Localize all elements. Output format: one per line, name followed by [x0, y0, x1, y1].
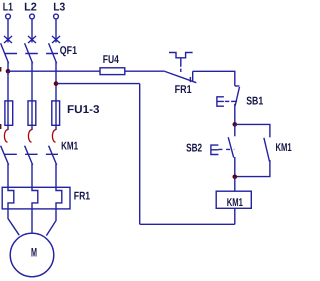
terminal L3: [54, 14, 59, 19]
contact KM1 aux blade: [264, 138, 270, 162]
breaker QF1 pole 3 blade: [49, 43, 57, 71]
node junction dot L1/control: [6, 69, 11, 74]
wire through fuse FU4: [100, 70, 165, 72]
wire FR1 to SB1 corner: [193, 71, 235, 86]
svg-text:KM1: KM1: [276, 142, 292, 154]
svg-text:QF1: QF1: [60, 45, 77, 57]
wire heater3 to motor: [46, 209, 56, 236]
coil KM1: [216, 191, 251, 208]
wire inside fuse FU2: [31, 101, 33, 125]
contactor KM1 pole 3 arc chute (red): [52, 130, 55, 142]
fuse FU2: [28, 101, 36, 125]
contactor KM1 pole 1 blade: [1, 146, 9, 188]
pushbutton SB1 actuator link (dashed): [225, 100, 229, 102]
terminal L1: [6, 14, 11, 19]
wire control phase C horizontal: [56, 83, 140, 85]
svg-text:FR1: FR1: [74, 191, 90, 203]
svg-text:L3: L3: [53, 1, 65, 13]
thermal relay FR1 heater 2: [32, 187, 38, 209]
wire pole 3 to fuse: [55, 71, 57, 125]
svg-text:FU4: FU4: [103, 54, 120, 66]
wire L2 drop: [31, 19, 33, 42]
contactor KM1 pole 2 arc chute (red): [28, 130, 31, 142]
breaker QF1 pole 2 blade: [25, 43, 33, 71]
wire fuse FU1 to contactor: [7, 125, 9, 130]
wire FR1 right terminal: [192, 71, 194, 81]
contactor KM1 linkage (dashed): [4, 153, 58, 155]
breaker QF1 pole 1 X contact: [4, 36, 12, 43]
wire SB1 bottom: [234, 104, 236, 125]
contact FR1 NC seat tick: [189, 77, 191, 82]
contactor KM1 pole 2 blade: [25, 146, 33, 188]
fuse FU1: [5, 101, 13, 125]
wire bottom return: [140, 223, 235, 225]
wire pole 2 to fuse: [31, 71, 33, 125]
svg-text:SB1: SB1: [246, 95, 263, 107]
wire KM1 aux bottom: [235, 160, 270, 177]
pushbutton SB1 actuator E: [217, 97, 224, 106]
thermal release stem dash: [180, 69, 182, 72]
svg-text:M: M: [31, 246, 37, 260]
svg-text:KM1: KM1: [227, 197, 243, 209]
wire heater2 to motor: [31, 209, 33, 233]
pushbutton SB1 blade: [235, 87, 239, 106]
contactor KM1 pole 3 blade: [49, 146, 57, 188]
wire control right riser: [139, 84, 141, 225]
breaker QF1 pole 1 blade: [1, 43, 9, 71]
wire L1 drop: [7, 19, 9, 42]
breaker QF1 linkage (dashed): [5, 53, 59, 55]
wire L3 drop: [55, 19, 57, 42]
thermal release stem: [180, 58, 182, 67]
thermal relay FR1 box: [2, 187, 70, 209]
pushbutton SB2 actuator E: [211, 145, 219, 154]
wire coil to bottom: [234, 208, 236, 224]
fuse FU4: [100, 68, 125, 75]
motor M circle: [10, 233, 54, 277]
wire SB2 bottom: [234, 157, 236, 177]
svg-text:L2: L2: [24, 1, 37, 13]
terminal L2: [30, 14, 35, 19]
contactor KM1 pole 1 arc chute (red): [4, 130, 7, 142]
thermal release symbol above FR1 contact: [169, 53, 193, 58]
breaker QF1 pole 3 X contact: [52, 36, 60, 43]
wire fuse FU2 to contactor: [31, 125, 33, 130]
wire fuse FU3 to contactor: [55, 125, 57, 130]
pushbutton SB2 actuator link (dashed): [218, 148, 234, 150]
node junction dot L3/control return: [54, 81, 59, 86]
node junction dot coil branch: [233, 175, 238, 180]
thermal relay FR1 heater 3: [56, 187, 62, 209]
svg-text:FR1: FR1: [175, 84, 192, 96]
svg-text:SB2: SB2: [186, 142, 202, 154]
breaker QF1 pole 2 X contact: [28, 36, 36, 43]
fuse FU3: [52, 101, 60, 125]
wire pole 1 to fuse: [7, 71, 9, 125]
left-edge cropped mark: [0, 67, 1, 72]
svg-text:L1: L1: [3, 1, 13, 13]
wire SB2 top: [234, 124, 236, 136]
pushbutton SB2 blade: [228, 137, 234, 157]
contact FR1 NC blade: [165, 71, 197, 82]
wire to KM1 aux branch top: [235, 124, 270, 137]
node junction dot SB1/KM1 branch: [233, 122, 238, 127]
wire control phase A horizontal: [8, 70, 100, 72]
left-edge cropped mark 2: [0, 124, 1, 129]
wire heater1 to motor: [8, 209, 19, 235]
thermal relay FR1 heater 1: [8, 187, 14, 209]
svg-text:FU1-3: FU1-3: [67, 104, 100, 116]
wire inside fuse FU1: [7, 101, 9, 125]
pushbutton SB1 seat tick: [231, 100, 237, 102]
pushbutton SB1 top seat tick: [235, 85, 240, 87]
wire junction to coil: [234, 177, 236, 191]
wire inside fuse FU3: [55, 101, 57, 125]
svg-text:KM1: KM1: [61, 141, 78, 153]
